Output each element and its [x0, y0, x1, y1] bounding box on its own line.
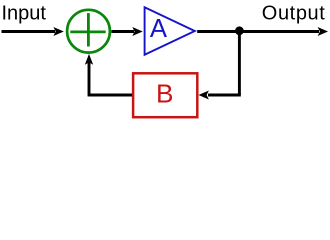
svg-text:B: B: [156, 78, 173, 108]
svg-text:Input: Input: [2, 3, 47, 25]
svg-text:Output: Output: [262, 3, 326, 25]
svg-text:A: A: [150, 15, 168, 43]
